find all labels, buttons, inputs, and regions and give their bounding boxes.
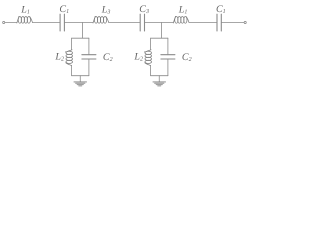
- wire junction drop: [160, 23, 162, 39]
- svg-text:C1: C1: [216, 4, 226, 15]
- wire bottom bar: [72, 75, 89, 77]
- wire left branch lower: [150, 66, 152, 76]
- svg-text:C2: C2: [182, 52, 192, 63]
- wire: [109, 22, 140, 24]
- wire bottom bar: [151, 75, 168, 77]
- wire right branch lower: [88, 59, 90, 76]
- ground (second): [153, 82, 166, 86]
- wire right branch upper: [167, 38, 169, 55]
- svg-text:C3: C3: [139, 4, 149, 15]
- wire right branch upper: [88, 38, 90, 55]
- wire: [145, 22, 174, 24]
- svg-text:L1: L1: [178, 4, 188, 15]
- wire ground stub: [158, 76, 160, 82]
- capacitor C2 (second): [161, 54, 175, 56]
- wire top bar: [72, 37, 89, 39]
- capacitor C1 (output side): [216, 14, 218, 31]
- wire ground stub: [79, 76, 81, 82]
- svg-text:L2: L2: [54, 52, 64, 63]
- input terminal: [3, 21, 5, 23]
- inductor L2: [66, 50, 73, 66]
- capacitor C2: [82, 54, 96, 56]
- wire: [5, 22, 17, 24]
- svg-text:L2: L2: [133, 52, 143, 63]
- ground: [74, 82, 87, 86]
- wire top bar: [151, 37, 168, 39]
- capacitor C3: [139, 14, 141, 31]
- wire left branch lower: [71, 66, 73, 76]
- inductor L1 (output side): [173, 16, 189, 23]
- wire junction drop: [82, 23, 84, 39]
- svg-text:L1: L1: [20, 4, 30, 15]
- svg-text:C1: C1: [59, 4, 69, 15]
- output terminal: [244, 21, 246, 23]
- inductor L2 (second): [145, 50, 152, 66]
- wire: [189, 22, 217, 24]
- svg-text:L3: L3: [101, 4, 111, 15]
- svg-text:C2: C2: [103, 52, 113, 63]
- wire: [65, 22, 93, 24]
- wire left branch upper: [150, 38, 152, 50]
- wire: [33, 22, 60, 24]
- capacitor C1: [59, 14, 61, 31]
- wire right branch lower: [167, 59, 169, 76]
- wire left branch upper: [71, 38, 73, 50]
- inductor L1: [17, 16, 33, 23]
- inductor L3: [93, 16, 109, 23]
- wire: [222, 22, 244, 24]
